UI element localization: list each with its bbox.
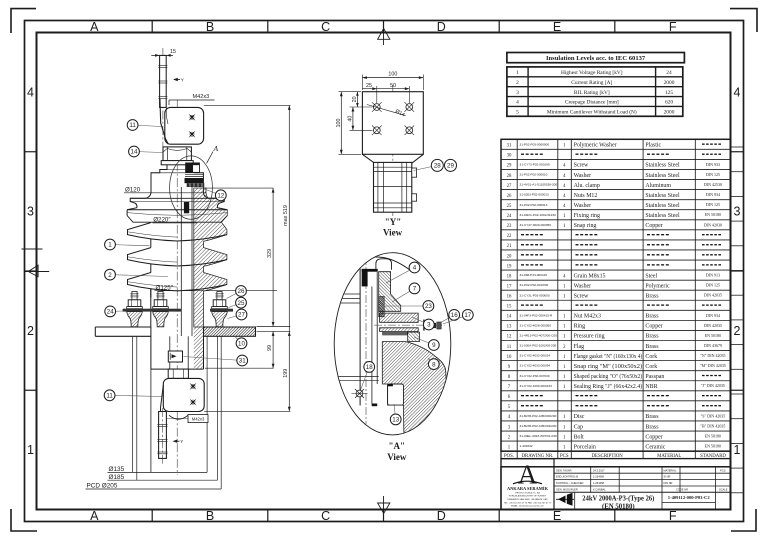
- trim mark bottom-left: [11, 509, 37, 531]
- svg-text:13: 13: [507, 325, 512, 330]
- svg-text:329: 329: [267, 249, 273, 258]
- top stud (bolt item 2): [158, 55, 167, 107]
- svg-text:Washer: Washer: [574, 173, 592, 179]
- svg-text:11: 11: [106, 393, 113, 400]
- svg-text:3: 3: [427, 322, 431, 329]
- svg-text:Pressure ring: Pressure ring: [574, 334, 605, 340]
- svg-text:10: 10: [507, 355, 512, 360]
- svg-text:14: 14: [507, 315, 512, 320]
- svg-text:27: 27: [238, 312, 245, 319]
- svg-text:Stainless Steel: Stainless Steel: [645, 173, 680, 179]
- svg-text:DIN 42035: DIN 42035: [704, 293, 722, 298]
- dim Ø120: [124, 186, 206, 193]
- svg-text:100: 100: [336, 119, 342, 128]
- balloon 25: [229, 297, 247, 308]
- projection symbol: [556, 493, 574, 506]
- svg-text:24kV 2000A-P3-(Type 26): 24kV 2000A-P3-(Type 26): [582, 495, 654, 502]
- svg-text:31-CY73-P02-000190: 31-CY73-P02-000190: [520, 163, 550, 167]
- svg-text:Steel: Steel: [645, 273, 657, 279]
- bottom stud centerline: [162, 408, 164, 464]
- svg-text:17: 17: [464, 312, 471, 319]
- svg-text:18: 18: [366, 364, 373, 371]
- svg-text:Grain M8x15: Grain M8x15: [574, 273, 606, 279]
- detail A leader and letter: [207, 144, 219, 163]
- svg-text:100: 100: [388, 72, 397, 78]
- pressure ring (item 12): [187, 183, 205, 187]
- svg-text:MATERIAL: MATERIAL: [664, 468, 677, 472]
- svg-text:15: 15: [170, 49, 176, 55]
- grid column dividers: [151, 21, 153, 33]
- parts row 16: [507, 293, 722, 300]
- conductor below plate: [169, 336, 171, 369]
- svg-text:12: 12: [217, 193, 224, 200]
- svg-text:24.3.2017: 24.3.2017: [593, 468, 605, 472]
- label M42x3 bottom boxed: [167, 415, 208, 423]
- bottom stud: [157, 412, 167, 459]
- bottom flag hole 1: [190, 383, 197, 390]
- flag hole top: [189, 114, 196, 121]
- svg-text:20: 20: [352, 96, 358, 102]
- svg-text:DIN NR: DIN NR: [664, 481, 673, 485]
- svg-text:31-B235-P02-A05/000/200: 31-B235-P02-A05/000/200: [520, 414, 557, 418]
- svg-text:Y: Y: [180, 439, 183, 444]
- centering mark bottom: [378, 496, 390, 522]
- right band graduation ticks: [731, 146, 744, 148]
- svg-text:"A": "A": [389, 441, 406, 451]
- svg-text:2000: 2000: [664, 110, 675, 116]
- balloon 16: [440, 310, 460, 324]
- svg-text:Washer: Washer: [574, 203, 592, 209]
- svg-text:Stainless Steel: Stainless Steel: [645, 213, 680, 219]
- shed 2: [128, 248, 227, 273]
- svg-text:M42x3: M42x3: [192, 416, 205, 421]
- svg-text:3: 3: [27, 205, 34, 219]
- svg-text:C: C: [321, 20, 330, 34]
- balloon 7: [392, 283, 420, 302]
- svg-text:C: C: [321, 509, 330, 523]
- A view gland upper hatch (item 3): [380, 313, 419, 322]
- parts row 19: [507, 264, 721, 269]
- svg-text:Porcelain: Porcelain: [574, 444, 596, 450]
- parts row 10: [507, 353, 726, 360]
- detail A ellipse on main view: [170, 156, 213, 219]
- balloon 26: [227, 286, 247, 299]
- svg-text:NBR: NBR: [645, 384, 657, 390]
- parts row 3: [508, 424, 726, 431]
- svg-text:9: 9: [432, 342, 436, 349]
- fixing ring right: [210, 309, 233, 312]
- svg-text:Sealing Ring "J" (66x42x2: Sealing Ring "J" (66x42x2.4): [574, 383, 643, 390]
- snap ring dark (item 23): [184, 202, 189, 213]
- svg-text:Nuts M12: Nuts M12: [574, 193, 598, 199]
- svg-text:1-409112-000-P03-C2: 1-409112-000-P03-C2: [668, 495, 711, 500]
- svg-text:Polymeric Washer: Polymeric Washer: [574, 143, 617, 149]
- svg-text:1: 1: [516, 70, 519, 76]
- svg-text:24: 24: [507, 214, 512, 219]
- svg-text:B: B: [206, 509, 214, 523]
- svg-text:A: A: [90, 20, 99, 34]
- A view top dome arc: [352, 257, 411, 270]
- svg-text:16: 16: [451, 312, 458, 319]
- svg-text:620: 620: [665, 100, 673, 106]
- section hatch porcelain right half: [194, 188, 228, 327]
- svg-text:Ø125″: Ø125″: [156, 284, 174, 291]
- svg-text:DIN 42030: DIN 42030: [704, 222, 722, 227]
- svg-text:31-P02-P02-000010: 31-P02-P02-000010: [520, 173, 548, 177]
- svg-text:CODE NR: CODE NR: [676, 488, 688, 492]
- balloon 24: [105, 306, 123, 317]
- svg-text:B: B: [206, 20, 214, 34]
- svg-text:27: 27: [507, 184, 512, 189]
- svg-text:1-409342: 1-409342: [520, 444, 533, 448]
- svg-text:31-04F3-P02-000415-R: 31-04F3-P02-000415-R: [520, 313, 553, 317]
- svg-text:SCALE: SCALE: [719, 488, 728, 492]
- svg-text:DIN 125: DIN 125: [706, 202, 720, 207]
- svg-text:Ø120: Ø120: [125, 186, 141, 193]
- svg-text:View: View: [383, 228, 403, 238]
- parts row 9: [508, 363, 726, 370]
- porcelain head left profile: [127, 165, 167, 210]
- svg-text:Passpan: Passpan: [645, 374, 664, 380]
- A view gasket lines left: [334, 375, 379, 377]
- svg-text:Screw: Screw: [574, 163, 589, 169]
- porcelain skirt: [150, 289, 152, 328]
- parts row 4: [508, 413, 725, 420]
- svg-text:31-CY47-0020-000050: 31-CY47-0020-000050: [520, 223, 552, 227]
- svg-text:Brass: Brass: [645, 344, 659, 350]
- svg-text:Plastic: Plastic: [645, 143, 661, 149]
- svg-text:31-030A-P02-1002/08-200: 31-030A-P02-1002/08-200: [520, 344, 557, 348]
- parts row 15: [507, 304, 721, 309]
- parts row 20: [507, 254, 721, 259]
- view Y arrow top: [173, 78, 184, 83]
- svg-text:4: 4: [516, 100, 519, 106]
- A view axis centerline: [365, 253, 367, 436]
- Y view plate: [362, 92, 423, 155]
- svg-text:Minimum Cantilever Withstand L: Minimum Cantilever Withstand Load (N): [547, 109, 637, 116]
- parts row 18: [507, 273, 720, 280]
- parts row 25: [507, 202, 720, 209]
- svg-text:1: 1: [734, 443, 741, 457]
- svg-text:Brass: Brass: [645, 414, 659, 420]
- svg-text:40: 40: [348, 116, 354, 122]
- balloon 27: [228, 309, 247, 320]
- bottom nut: [168, 369, 188, 378]
- Y view dim 25 50: [362, 83, 409, 103]
- svg-text:M42x3: M42x3: [193, 94, 210, 100]
- dim 99: [267, 331, 275, 368]
- nut M42x3 (item 14): [163, 147, 191, 161]
- clamp bolt assembly 1 (items 25-27): [127, 292, 143, 327]
- parts row 11: [507, 343, 722, 350]
- svg-text:31-4V31-A1-S1109338-200: 31-4V31-A1-S1109338-200: [520, 183, 558, 187]
- svg-text:19: 19: [507, 264, 512, 269]
- svg-text:3: 3: [734, 205, 741, 219]
- trim mark top-left: [11, 9, 36, 33]
- balloon 11: [127, 120, 161, 131]
- trim mark bottom-right: [731, 509, 756, 531]
- svg-text:Stainless Steel: Stainless Steel: [645, 203, 680, 209]
- svg-text:Fixing ring: Fixing ring: [574, 213, 600, 219]
- svg-text:Snap ring "M" (100x50x: Snap ring "M" (100x50x2): [574, 363, 643, 370]
- svg-text:31-04DC-P02-1001/31230: 31-04DC-P02-1001/31230: [520, 213, 557, 217]
- balloon 8: [428, 358, 439, 370]
- svg-text:1: 1: [27, 443, 34, 457]
- balloon 12: [205, 189, 227, 201]
- svg-text:DIN 934: DIN 934: [706, 313, 720, 318]
- cap section dark (item 3): [185, 163, 203, 177]
- grid row dividers: [25, 151, 37, 153]
- svg-text:29: 29: [507, 164, 512, 169]
- svg-text:F: F: [669, 509, 677, 523]
- svg-text:Brass: Brass: [645, 314, 659, 320]
- svg-text:PORCELAIN INDUSTRY OF TURKEY: PORCELAIN INDUSTRY OF TURKEY: [509, 495, 547, 498]
- svg-text:8: 8: [432, 361, 436, 368]
- svg-text:28: 28: [507, 174, 512, 179]
- svg-text:END_KONTROL-B: END_KONTROL-B: [556, 475, 578, 479]
- A view gland lower hatch: [380, 328, 419, 332]
- A view cap section black bars (item 3): [362, 269, 378, 272]
- dim Ø135: [108, 466, 208, 473]
- balloon 17: [443, 310, 473, 325]
- dim 329: [267, 188, 275, 326]
- svg-text:Cap: Cap: [574, 424, 584, 430]
- view Y arrow bottom: [173, 439, 184, 444]
- balloon 18: [361, 362, 375, 391]
- svg-text:2: 2: [734, 324, 741, 338]
- clamp bolt assembly 2 (items 25-27): [153, 292, 169, 327]
- housing aperture sides: [150, 369, 152, 472]
- porcelain head step lines: [160, 169, 195, 171]
- Y view taper to clamp: [362, 154, 423, 164]
- shed 1: [128, 223, 227, 248]
- svg-text:ANKARA SERAMİK: ANKARA SERAMİK: [507, 486, 549, 491]
- balloon 23: [384, 301, 434, 312]
- svg-text:DIN 125: DIN 125: [706, 283, 720, 288]
- centering mark top: [378, 20, 390, 45]
- parts row 12: [507, 333, 721, 340]
- svg-text:EMAIL: info@ankaraseramik.com: EMAIL: info@ankaraseramik.com: [511, 505, 544, 508]
- flange plate left (item 10): [95, 327, 151, 336]
- svg-text:Brass: Brass: [645, 424, 659, 430]
- svg-text:max 519: max 519: [283, 205, 289, 226]
- balloon 11: [104, 390, 161, 401]
- svg-text:26: 26: [507, 194, 512, 199]
- detail A view ellipse: [334, 253, 451, 435]
- flange plate right hatched: [204, 327, 256, 336]
- fixing ring left (item 24): [123, 309, 181, 312]
- A view cap boss: [376, 259, 392, 270]
- svg-text:A: A: [90, 509, 99, 523]
- balloon 4: [386, 262, 420, 283]
- parts list table: [501, 139, 731, 451]
- parts row 21: [507, 244, 721, 249]
- svg-text:GEN. TASAR: GEN. TASAR: [556, 468, 572, 472]
- svg-text:D: D: [437, 20, 446, 34]
- svg-text:EN 50180: EN 50180: [705, 434, 721, 439]
- svg-text:GEN. MUDURLER: GEN. MUDURLER: [556, 488, 578, 492]
- svg-text:PRODUCTION A.TC. SA: PRODUCTION A.TC. SA: [515, 491, 540, 494]
- parts row 7: [508, 383, 725, 390]
- svg-text:Brass: Brass: [645, 334, 659, 340]
- flag boss underside arc: [169, 415, 188, 419]
- svg-text:EN 50180: EN 50180: [705, 333, 721, 338]
- parts row 8: [508, 373, 721, 380]
- svg-text:22: 22: [507, 234, 512, 239]
- A view thread band: [382, 331, 407, 335]
- svg-text:E: E: [553, 509, 561, 523]
- flag hole bottom: [189, 131, 196, 138]
- svg-text:12: 12: [507, 335, 512, 340]
- svg-text:PCD Ø205: PCD Ø205: [87, 483, 118, 490]
- svg-text:2: 2: [108, 272, 112, 279]
- svg-text:Cork: Cork: [645, 354, 657, 360]
- inner drawing frame: [37, 33, 731, 510]
- dim Ø220: [153, 217, 198, 224]
- svg-text:SI NR: SI NR: [664, 475, 671, 479]
- parts row 13: [507, 323, 722, 330]
- svg-text:4: 4: [27, 85, 34, 99]
- svg-text:31-CY02-4032-000/34: 31-CY02-4032-000/34: [520, 354, 551, 358]
- Y view hole: [405, 126, 415, 136]
- svg-text:DIN 913: DIN 913: [706, 273, 720, 278]
- balloon 10: [235, 337, 247, 349]
- svg-text:PCS.: PCS.: [720, 468, 726, 472]
- Y view hole: [372, 126, 382, 136]
- svg-text:31-CY02-4033-000/94: 31-CY02-4033-000/94: [520, 364, 551, 368]
- A view screw (items 16,17): [424, 320, 441, 331]
- top stud centerline: [162, 48, 164, 152]
- svg-text:21: 21: [507, 244, 512, 249]
- svg-text:Stainless Steel: Stainless Steel: [645, 193, 680, 199]
- svg-text:"M" DIN 42035: "M" DIN 42035: [700, 363, 726, 368]
- svg-text:7: 7: [413, 286, 417, 293]
- parts row 22: [507, 234, 721, 239]
- main view centerline: [176, 100, 178, 475]
- svg-text:125: 125: [665, 90, 673, 96]
- svg-text:Polymeric: Polymeric: [645, 283, 670, 289]
- parts row 31: [507, 142, 721, 148]
- svg-text:2000: 2000: [664, 80, 675, 86]
- svg-text:Washer: Washer: [574, 283, 592, 289]
- parts row 17: [507, 283, 720, 290]
- svg-text:17: 17: [507, 284, 512, 289]
- svg-text:DIN 43679: DIN 43679: [704, 343, 722, 348]
- svg-text:Current Rating [A]: Current Rating [A]: [571, 80, 612, 86]
- A view porcelain wall: [359, 269, 361, 406]
- title block rows: [554, 472, 661, 474]
- svg-text:31-B235-P02-A05/004/200: 31-B235-P02-A05/004/200: [520, 424, 557, 428]
- balloon 28: [414, 159, 444, 171]
- dim 15 top: [151, 49, 176, 57]
- svg-text:14: 14: [131, 149, 138, 156]
- washer under nut (item 17): [161, 161, 193, 165]
- svg-text:31-03EL-0023-/507/01-030: 31-03EL-0023-/507/01-030: [520, 434, 557, 438]
- bottom flag (item 11): [160, 378, 204, 419]
- svg-text:31-P02-P02-0010/00: 31-P02-P02-0010/00: [520, 283, 549, 287]
- svg-text:31-0203-P02-000013: 31-0203-P02-000013: [520, 193, 550, 197]
- svg-text:4: 4: [734, 85, 741, 99]
- empty strip above title block: [501, 459, 731, 467]
- svg-text:30: 30: [507, 154, 512, 159]
- svg-text:31-P02-P03-0000000: 31-P02-P03-0000000: [520, 142, 550, 146]
- dim Ø185: [108, 474, 218, 481]
- svg-text:25: 25: [238, 300, 245, 307]
- svg-text:31-CY02-P30-007030: 31-CY02-P30-007030: [520, 374, 550, 378]
- Y view Ø14 label: [367, 105, 406, 119]
- svg-text:11: 11: [507, 345, 512, 350]
- svg-text:2: 2: [516, 80, 519, 86]
- svg-text:24: 24: [107, 309, 114, 316]
- svg-text:(EN 50180): (EN 50180): [602, 503, 635, 510]
- svg-text:20: 20: [507, 254, 512, 259]
- svg-text:10: 10: [238, 341, 245, 348]
- A view grain screw (item 18): [352, 389, 368, 398]
- svg-text:BIL Rating [kV]: BIL Rating [kV]: [574, 90, 610, 96]
- title block outline: [501, 467, 731, 510]
- svg-text:Stainless Steel: Stainless Steel: [645, 163, 680, 169]
- svg-text:EN 50180: EN 50180: [705, 444, 721, 449]
- Y view clamp block (items 28,29): [374, 162, 417, 212]
- balloon 3: [412, 317, 434, 330]
- svg-text:15: 15: [507, 305, 512, 310]
- svg-text:99: 99: [267, 345, 273, 351]
- lower studs and extension lines: [131, 336, 133, 472]
- svg-text:23: 23: [507, 224, 512, 229]
- svg-text:Brass: Brass: [645, 294, 659, 300]
- svg-text:D: D: [437, 509, 446, 523]
- parts row 6: [508, 395, 721, 400]
- svg-text:11: 11: [129, 122, 136, 129]
- svg-text:Snap ring: Snap ring: [574, 223, 597, 229]
- svg-text:Bolt: Bolt: [574, 434, 585, 440]
- dim 199: [283, 331, 291, 377]
- parts row 5: [508, 405, 721, 410]
- dim max 519: [283, 105, 291, 411]
- svg-text:31-068-P34-000415: 31-068-P34-000415: [520, 273, 548, 277]
- svg-text:Shaped packing "O" (76x50x2): Shaped packing "O" (76x50x2): [574, 373, 643, 380]
- svg-text:31-4R13-P02-4072/00-C00: 31-4R13-P02-4072/00-C00: [520, 334, 558, 338]
- Y view dim 100 top: [362, 72, 423, 90]
- A view ring (item 9): [408, 332, 420, 342]
- A view seal black bits: [388, 384, 393, 386]
- svg-text:A: A: [213, 144, 219, 153]
- svg-text:Copper: Copper: [645, 324, 662, 330]
- svg-text:Ring: Ring: [574, 324, 586, 330]
- svg-text:Aluminum: Aluminum: [645, 183, 671, 189]
- svg-text:Screw: Screw: [574, 294, 589, 300]
- Y view left dims: [336, 92, 373, 155]
- svg-text:26: 26: [238, 288, 245, 295]
- svg-text:5: 5: [516, 110, 519, 116]
- clamp bolt assembly 3 (items 25-27): [212, 292, 228, 327]
- parts row 30: [507, 154, 721, 159]
- svg-text:Creepage Distance [mm]: Creepage Distance [mm]: [565, 100, 619, 106]
- A view washer checker strip (item 23): [379, 297, 385, 317]
- svg-text:Ø135: Ø135: [109, 466, 125, 473]
- bottom flag hole 2: [190, 399, 197, 406]
- balloon 29: [445, 159, 457, 171]
- svg-text:"N" DIN 42035: "N" DIN 42035: [700, 353, 725, 358]
- parts row 28: [507, 172, 720, 179]
- flange gasket dark (item 10 area): [185, 178, 204, 183]
- svg-text:Y: Y: [181, 78, 184, 83]
- Ø220 band: [127, 210, 227, 222]
- svg-text:Cork: Cork: [645, 364, 657, 370]
- svg-text:Copper: Copper: [645, 223, 662, 229]
- svg-text:29: 29: [447, 163, 454, 170]
- disc lip lines: [130, 197, 224, 199]
